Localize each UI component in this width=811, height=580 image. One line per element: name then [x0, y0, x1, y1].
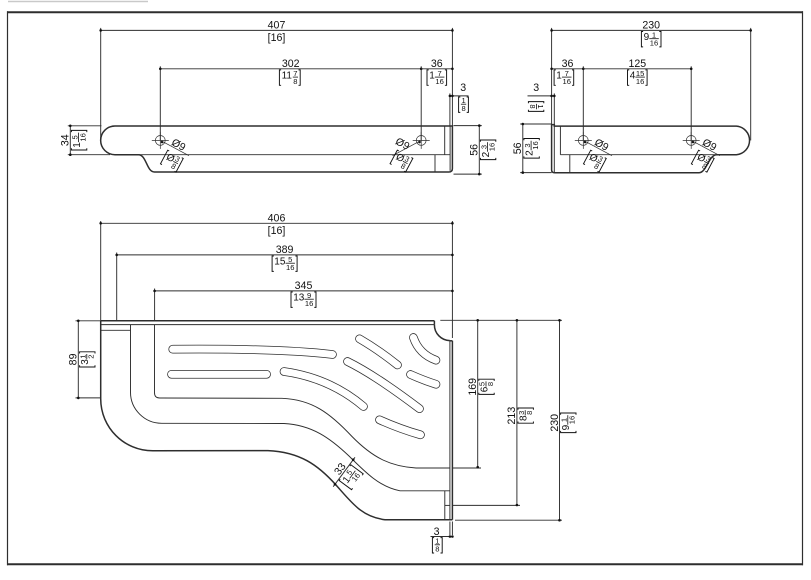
svg-text:8: 8	[528, 104, 537, 108]
plan view: corner cove + plate	[433, 321, 435, 325]
slot SD (long diagonal)	[348, 362, 420, 409]
dimension 389 [15 5/16]	[116, 253, 118, 321]
dimension 3 [1/8] (plan plate)	[449, 522, 451, 536]
svg-text:406: 406	[268, 213, 286, 225]
slot SB	[413, 338, 436, 361]
dimension 169 [6 5/8]	[477, 320, 479, 467]
svg-text:1: 1	[429, 71, 435, 82]
side view: bar bottom edge	[560, 154, 736, 156]
svg-text:13: 13	[293, 293, 305, 304]
svg-text:16: 16	[650, 39, 658, 48]
top partial gray rule	[8, 1, 148, 3]
svg-text:8: 8	[293, 77, 297, 86]
side view: plate inner face	[553, 125, 555, 127]
svg-text:2: 2	[481, 151, 492, 157]
hole right (front) with label	[390, 132, 430, 173]
hole right (side) with label	[683, 132, 721, 173]
svg-text:1: 1	[556, 71, 562, 82]
dimension 230 [9 1/16]	[551, 28, 553, 124]
side view: outline (wall plate + shelf profile)	[552, 125, 750, 173]
front view: interior mid line (pan edge)	[139, 154, 451, 156]
svg-text:9: 9	[561, 424, 572, 430]
svg-text:16: 16	[531, 141, 540, 149]
slot S3	[284, 372, 364, 407]
plan view: arm end upturn	[444, 491, 446, 520]
svg-text:2: 2	[87, 354, 96, 358]
svg-text:16: 16	[487, 143, 496, 151]
dimension 3 [1/8] (side plate thickness)	[553, 93, 555, 124]
svg-text:16: 16	[78, 133, 87, 141]
drawing border frame	[7, 11, 803, 13]
dimension 345 [13 9/16]	[154, 289, 156, 321]
front view: shelf outline	[101, 126, 453, 172]
dimension 125 [4 15/16]	[690, 66, 692, 140]
svg-text:16: 16	[568, 416, 577, 424]
dimension 89 [3 1/2] (plan left)	[76, 320, 101, 322]
svg-text:8: 8	[461, 104, 465, 113]
svg-text:8: 8	[486, 382, 495, 386]
svg-text:15: 15	[274, 257, 286, 268]
side view: band vertical	[559, 126, 561, 155]
dimension 3 [1/8] (front plate thickness)	[449, 93, 451, 126]
svg-text:407: 407	[268, 20, 286, 32]
dimension 230 [9 1/16] (plan)	[559, 320, 561, 520]
svg-text:16: 16	[305, 299, 313, 308]
dimension 302 [11 7/8]	[159, 66, 161, 140]
svg-text:2: 2	[525, 150, 536, 156]
plan view: left arm cap	[101, 329, 131, 331]
svg-text:1: 1	[72, 142, 83, 148]
svg-text:[16]: [16]	[268, 32, 286, 44]
svg-text:16: 16	[435, 77, 443, 86]
dimension 36 [1 7/16] (side)	[582, 66, 584, 140]
svg-text:11: 11	[282, 71, 293, 82]
svg-text:16: 16	[636, 77, 644, 86]
front view: back upturn band verticals	[444, 126, 446, 155]
svg-text:4: 4	[630, 71, 636, 82]
slot SA	[360, 339, 398, 365]
dimension 56 [2 3/16] (front right height)	[454, 125, 482, 127]
hole left (front) with label	[152, 132, 190, 173]
svg-text:9: 9	[644, 32, 650, 43]
dimension 213 [8 3/8]	[516, 320, 518, 505]
plan view: outer contour A	[101, 321, 453, 520]
slot SE	[380, 420, 421, 435]
side view: pan corner vertical	[569, 155, 571, 173]
plan view: inner contour C (tray inner edge)	[155, 325, 451, 468]
svg-text:8: 8	[525, 411, 534, 415]
plan view: top band second line	[101, 324, 434, 326]
dimension 56 [2 3/16] (side left height)	[520, 123, 551, 125]
slot S2	[172, 370, 267, 379]
dimension 33 [1 5/16] (rotated)	[333, 457, 355, 486]
dimension 406 [16] (plan)	[100, 221, 102, 321]
dimension 36 [1 7/16] (front)	[421, 68, 452, 70]
hole left (side) with label	[575, 132, 613, 173]
right side extension lines	[440, 319, 562, 321]
slot SC	[411, 375, 437, 385]
svg-text:[16]: [16]	[268, 225, 286, 237]
slot S1 (long top)	[173, 349, 333, 354]
dimension 407 [16]	[100, 28, 102, 140]
plan view: top edge	[101, 320, 435, 322]
svg-text:3: 3	[533, 82, 539, 94]
front view: pan corner vertical near right end	[434, 155, 436, 172]
svg-text:16: 16	[562, 77, 570, 86]
svg-text:3: 3	[460, 82, 466, 94]
svg-text:16: 16	[286, 263, 294, 272]
plan view: inner contour B	[131, 325, 451, 491]
dimension 34 [1 5/16] (left height)	[68, 125, 102, 127]
svg-text:8: 8	[435, 545, 439, 554]
